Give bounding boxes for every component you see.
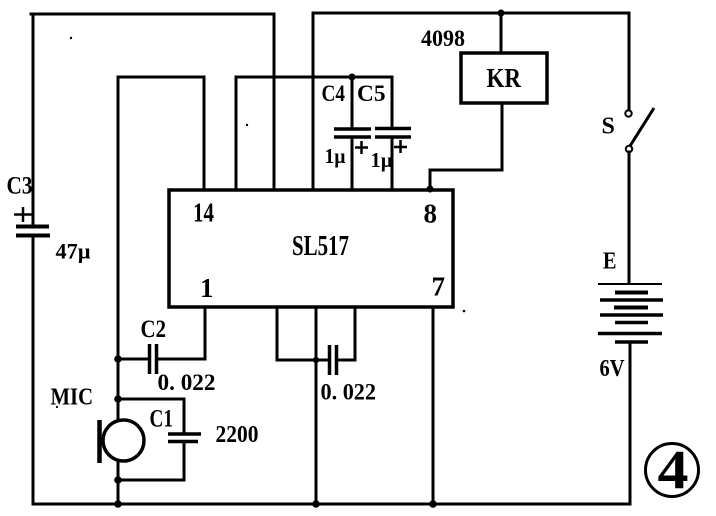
wire switch to battery [628, 152, 631, 282]
MIC symbol back plate bar [97, 420, 102, 463]
relay KR bottom lead [501, 103, 504, 170]
switch S contact upper [625, 110, 631, 116]
capacitor C4 leads [351, 77, 354, 128]
wire horizontal mic-bridge [118, 76, 204, 79]
svg-text:1µ: 1µ [325, 144, 346, 168]
capacitor C3 plates [16, 227, 50, 236]
svg-text:8: 8 [424, 199, 438, 229]
wire horizontal C4/C5 top [236, 76, 392, 79]
junction dot rail x433 [429, 500, 437, 508]
wire KR to IC pin 8 vertical [429, 170, 432, 190]
wire bottom rail [34, 503, 630, 506]
wire IC bottom pin x316 to rail [315, 307, 318, 504]
svg-text:7: 7 [432, 272, 446, 302]
scan specks [56, 37, 465, 408]
wire top-left horizontal [31, 13, 274, 16]
svg-text:0. 022: 0. 022 [321, 380, 377, 405]
svg-text:KR: KR [487, 62, 522, 93]
svg-text:4: 4 [658, 439, 689, 500]
switch S blade [630, 108, 654, 146]
svg-text:SL517: SL517 [292, 230, 349, 262]
capacitor 0.022 bottom plates [330, 345, 337, 375]
junction dot C4 top [349, 74, 356, 81]
wire battery to bottom rail [629, 342, 632, 503]
capacitor C5 plates [375, 129, 411, 138]
wire vertical x236 to IC top [235, 77, 238, 190]
wire C1 top horizontal [118, 398, 184, 401]
wire top-right horizontal [313, 12, 629, 15]
svg-text:14: 14 [193, 198, 214, 228]
capacitor C1 top lead [183, 399, 186, 433]
wire right rail to switch [628, 13, 631, 110]
svg-text:C1: C1 [150, 406, 174, 433]
junction dot KR-IC [427, 186, 434, 193]
switch S contact lower [626, 146, 632, 152]
relay KR box [461, 53, 547, 103]
svg-text:6V: 6V [600, 356, 626, 382]
junction dot rail x118 [114, 500, 122, 508]
wire IC pin 1 lead [204, 307, 207, 359]
capacitor C2 right wire [157, 358, 205, 361]
capacitor C2 plates [150, 344, 157, 374]
capacitor C4 polarity plus [355, 141, 368, 154]
junction dot rail x316 [312, 500, 320, 508]
IC U1 SL517 box [169, 190, 453, 307]
svg-text:47µ: 47µ [56, 239, 91, 264]
svg-text:S: S [602, 114, 615, 140]
svg-text:C4: C4 [322, 81, 346, 106]
junction dot C2 left [114, 355, 122, 363]
svg-text:C3: C3 [7, 173, 33, 200]
capacitor C1 plates [168, 434, 201, 442]
capacitor C5 leads [391, 77, 394, 127]
svg-text:1µ: 1µ [371, 148, 393, 172]
capacitor C5 polarity plus [394, 140, 407, 153]
svg-text:C5: C5 [357, 81, 386, 106]
battery E plates [598, 284, 663, 342]
wire vertical x204 to IC pin 14 [203, 77, 206, 190]
MIC symbol circle [103, 420, 144, 461]
capacitor C3 polarity plus [14, 207, 32, 222]
wire C1 bottom horizontal [118, 479, 184, 482]
svg-text:4098: 4098 [421, 26, 465, 51]
wire IC pin 7 to rail [432, 307, 435, 504]
wire vertical x276 to IC top [273, 14, 276, 190]
junction dot bottom cap net [313, 357, 319, 363]
wire bottom cap right horizontal [338, 359, 355, 362]
figure number circle 4 [646, 444, 699, 497]
junction dot KR top [498, 10, 505, 17]
junction dot MIC top [114, 395, 122, 403]
wire vertical x118 down to C2/MIC [117, 77, 120, 420]
junction dot C1 bottom [114, 476, 122, 484]
svg-text:0. 022: 0. 022 [158, 370, 216, 395]
capacitor C4 plates [334, 129, 371, 137]
relay KR top lead [500, 13, 503, 53]
wire IC bottom pin x355 [354, 307, 357, 360]
wire KR to IC pin 8 horizontal [430, 169, 502, 172]
svg-text:1: 1 [200, 273, 214, 303]
svg-text:E: E [603, 249, 617, 275]
wire left rail upper [32, 14, 35, 225]
wire IC bottom pin x277 [276, 307, 279, 360]
svg-text:C2: C2 [141, 316, 167, 343]
wire left rail lower [32, 237, 35, 504]
wire vertical x313 to IC top [312, 13, 315, 190]
svg-text:2200: 2200 [216, 422, 259, 448]
wire bottom cap left horizontal [277, 359, 328, 362]
capacitor C2 left wire [118, 358, 148, 361]
capacitor C1 bottom lead [183, 443, 186, 480]
wire MIC bottom to rail [117, 461, 120, 504]
